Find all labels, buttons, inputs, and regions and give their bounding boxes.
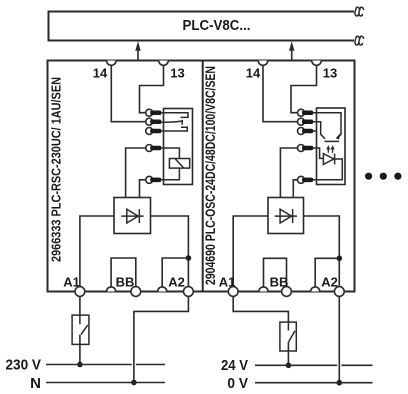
N supply line [46, 382, 165, 384]
terminal notch 14 module 1 [107, 61, 117, 66]
svg-text:13: 13 [170, 66, 184, 81]
wire diode box to A1 module 2 [233, 216, 268, 287]
junction dot A2 bridge module 1 [186, 255, 192, 261]
junction dot A2 bridge module 2 [337, 255, 343, 261]
junction dot A2 on N line [131, 380, 137, 386]
A2 bridge module 2 [315, 258, 339, 287]
230 V supply line [46, 364, 165, 366]
terminal notch 14 module 2 [258, 61, 268, 66]
svg-text:PLC-V8C...: PLC-V8C... [183, 18, 251, 34]
0 V supply line [255, 382, 373, 384]
relay contact blade tick module 1 [181, 120, 183, 125]
relay coil module 1 [169, 159, 189, 169]
wire A1 to switch module 1 [79, 296, 81, 314]
24 V supply line [255, 364, 373, 366]
terminal A2 module 1 [184, 287, 194, 297]
switch S1 [72, 315, 89, 364]
svg-text:230 V: 230 V [6, 357, 42, 374]
LED D1 wire from pin4 [313, 148, 323, 158]
wire terminal 13 to pin1 module 1 [140, 65, 164, 113]
terminal BB module 2 [282, 287, 292, 297]
break mark bottom right of bus bar [355, 36, 364, 45]
LED D1 cathode bar [334, 154, 336, 165]
bottom notch module 2 left [259, 287, 268, 292]
diode module 2 [275, 209, 297, 223]
bottom notch module 1 left [107, 287, 116, 292]
terminal notch 13 module 1 [159, 61, 169, 66]
terminal A1 module 2 [228, 287, 238, 297]
switch S2 [280, 322, 296, 365]
pin 3 module 1 [146, 128, 162, 135]
svg-text:2904690 PLC-OSC-24DC/48DC/100/: 2904690 PLC-OSC-24DC/48DC/100/V8C/SEN [203, 66, 218, 285]
BB bridge module 2 [264, 258, 287, 287]
pin 3 module 2 [298, 128, 314, 135]
pin 1 module 2 [298, 109, 314, 116]
svg-text:24 V: 24 V [221, 357, 248, 374]
pin 1 module 1 [146, 109, 162, 116]
diode box module 1 [114, 198, 151, 234]
wire pin4 to diode box module 1 [126, 148, 146, 198]
relay unit box module 1 [164, 109, 193, 185]
junction dot switch on 230V line [77, 362, 83, 368]
wire A2 to 0V module 2 [338, 296, 340, 383]
ellipsis more modules [365, 173, 402, 180]
svg-text:13: 13 [323, 66, 337, 81]
pin 2 module 1 [146, 118, 162, 125]
wire A1 to switch module 2 [233, 296, 288, 322]
opto light arrow left [326, 145, 330, 153]
wire terminal 14 to pin2 module 2 [263, 65, 298, 122]
pin 5 module 2 [298, 176, 314, 183]
wire diode box to A1 module 1 [80, 216, 114, 287]
wire pin5 to diode box module 2 [293, 180, 297, 198]
wire diode box to A2 module 1 [151, 216, 189, 287]
svg-text:14: 14 [246, 66, 261, 81]
svg-text:A2: A2 [321, 275, 338, 290]
bus bar PLC-V8C [49, 12, 355, 41]
phototransistor emitter arrowhead [336, 133, 340, 139]
relay contact blade module 1 [162, 121, 183, 122]
pin 4 module 2 [298, 145, 314, 152]
wire pin5 to coil module 1 [162, 168, 180, 180]
wire pin5 to diode box module 1 [140, 180, 146, 198]
arrow module 1 to bus [135, 41, 140, 60]
diode module 1 [121, 209, 143, 223]
relay contact fixed 14 hook module 1 [162, 113, 189, 118]
terminal BB module 1 [131, 287, 141, 297]
opto unit box module 2 [317, 108, 346, 185]
svg-text:A2: A2 [168, 275, 185, 290]
diode box module 2 [268, 198, 304, 234]
phototransistor Q1 collector line module 2 [313, 113, 341, 139]
pin 3 stub module 2 [313, 130, 317, 132]
opto light arrow right [331, 145, 335, 153]
terminal A2 module 2 [334, 287, 344, 297]
terminal notch 13 module 2 [312, 61, 322, 66]
bottom notch module 2 right [311, 287, 320, 292]
wire terminal 14 to pin2 module 1 [111, 65, 146, 122]
svg-text:14: 14 [93, 66, 108, 81]
relay contact fixed 12 hook module 1 [162, 127, 188, 131]
junction dot A2 on 0V line [337, 380, 343, 386]
bottom notch module 1 right [158, 287, 167, 292]
pin 4 module 1 [146, 145, 162, 152]
wire A2 to N module 1 [134, 296, 189, 382]
wire pin4 to diode box module 2 [280, 148, 297, 198]
terminal A1 module 1 [75, 287, 85, 297]
break mark top right [355, 7, 364, 16]
svg-text:BB: BB [116, 275, 135, 290]
svg-text:N: N [30, 375, 41, 392]
svg-text:0 V: 0 V [227, 375, 248, 392]
svg-text:2966333 PLC-RSC-230UC/ 1AU/SEN: 2966333 PLC-RSC-230UC/ 1AU/SEN [49, 77, 64, 262]
junction dot switch on 24V line [286, 363, 292, 369]
module divider [202, 61, 204, 292]
A2 bridge module 1 [162, 258, 188, 287]
BB bridge module 1 [111, 258, 136, 287]
wire pin4 to coil module 1 [162, 148, 180, 159]
phototransistor bar [324, 140, 339, 142]
module outline (both modules) [48, 61, 355, 292]
wire terminal 13 to pin1 module 2 [291, 65, 317, 113]
wire diode box to A2 module 2 [304, 216, 340, 287]
LED D1 wire to pin5 [313, 159, 342, 180]
arrow module 2 to bus [289, 41, 294, 60]
LED D1 triangle [323, 154, 333, 165]
phototransistor base path from pin2 [313, 122, 325, 139]
pin 5 module 1 [146, 176, 162, 183]
pin 2 module 2 [298, 118, 314, 125]
